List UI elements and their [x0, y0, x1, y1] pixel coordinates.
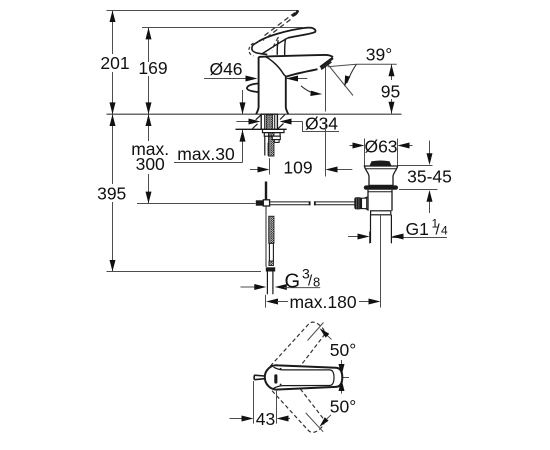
- svg-text:8: 8: [313, 275, 320, 290]
- horseshoe washer: [263, 129, 285, 132]
- faucet body outline: [256, 55, 333, 114]
- handle front stub: [254, 375, 265, 380]
- dimension 169: [148, 28, 150, 115]
- raised lever tip: [292, 10, 298, 16]
- deck hatching and mounting: [236, 128, 287, 130]
- lever raised position (dashed): [265, 13, 296, 36]
- svg-text:201: 201: [100, 53, 129, 73]
- cartridge dome curve: [266, 57, 287, 76]
- lever back knob: [252, 41, 267, 54]
- pop-up horizontal rod to drain (with break): [270, 202, 355, 205]
- svg-text:Ø34: Ø34: [305, 114, 338, 134]
- lever handle (solid, horizontal position): [259, 28, 316, 42]
- svg-text:169: 169: [138, 58, 167, 78]
- dashed handle rotated up 50deg: [270, 318, 329, 382]
- handle pivot slot: [274, 374, 277, 383]
- drain bottom rings: [371, 211, 391, 215]
- knurled knob: [354, 197, 361, 209]
- hose end nut (black): [266, 267, 275, 271]
- 39deg arc with arrow (near spout): [301, 86, 315, 94]
- svg-text:109: 109: [283, 158, 312, 178]
- drain o-ring: [364, 185, 398, 189]
- svg-text:Ø46: Ø46: [209, 59, 242, 79]
- shank threaded rod (braided texture): [266, 115, 273, 130]
- spout aerator beak: [320, 58, 333, 67]
- braided hose lower segment: [269, 216, 274, 243]
- dimension G 3/8 with thread arrows: [241, 286, 257, 288]
- pop-up rod coupler: [256, 200, 263, 205]
- dimension 95: [391, 64, 393, 80]
- handle inner contour: [274, 367, 335, 388]
- pop-up rod vertical: [265, 182, 267, 200]
- svg-text:/: /: [436, 222, 441, 239]
- svg-text:max.30: max.30: [177, 144, 235, 164]
- G3/8 tube: [267, 272, 273, 295]
- dimension D34: [236, 121, 251, 123]
- dimension D63: [364, 139, 366, 167]
- extension line top (201 ref): [107, 10, 298, 12]
- svg-text:50°: 50°: [330, 397, 356, 417]
- svg-text:300: 300: [136, 154, 165, 174]
- dimension G1 1/4: [369, 232, 371, 244]
- drain plug cap: [370, 161, 391, 166]
- dimension 43: [253, 381, 255, 424]
- svg-text:43: 43: [256, 409, 275, 429]
- dimension D46: [204, 78, 249, 80]
- lever neck: [277, 39, 285, 56]
- raised knob outline (dashed): [249, 43, 254, 56]
- threaded shank below deck: [261, 114, 277, 129]
- svg-text:4: 4: [441, 224, 448, 238]
- extension line 169 ref: [142, 27, 303, 29]
- svg-text:Ø63: Ø63: [364, 137, 397, 157]
- dimension max.300: [148, 114, 150, 203]
- braided hose upper segment: [268, 133, 274, 156]
- 50deg upper label and leader: [308, 323, 324, 341]
- svg-text:G: G: [285, 271, 301, 293]
- dimension max.30 (deck thickness): [242, 90, 244, 114]
- svg-text:G1: G1: [406, 219, 429, 239]
- dashed handle rotated down 50deg: [270, 373, 329, 437]
- hose ferrule: [269, 243, 273, 261]
- deck line: [107, 113, 402, 115]
- dimension 395: [112, 114, 114, 271]
- dimension 109: [269, 158, 271, 174]
- drain flange: [364, 166, 397, 185]
- drain body: [368, 190, 392, 211]
- pop-up rod horizontal reference line: [137, 203, 256, 205]
- left hook on body: [247, 83, 260, 92]
- svg-text:95: 95: [381, 81, 400, 101]
- svg-text:35-45: 35-45: [407, 167, 452, 187]
- drain side port to lever rod: [362, 197, 368, 210]
- drain tailpipe: [371, 215, 392, 243]
- mounting nut: [264, 133, 280, 137]
- 39deg arc with arrow (near label): [347, 64, 356, 83]
- supply tube white: [265, 136, 268, 155]
- svg-text:50°: 50°: [330, 340, 356, 360]
- lever under-curve: [261, 38, 288, 54]
- extension line bottom of 395: [107, 271, 262, 273]
- dimension max.180: [265, 295, 267, 308]
- handle dots: [280, 368, 282, 370]
- drain centerline: [380, 215, 382, 308]
- 39deg slanted reference line from spout tip: [328, 64, 354, 96]
- svg-text:395: 395: [97, 184, 126, 204]
- solid handle top view: [265, 365, 343, 389]
- svg-text:max.180: max.180: [289, 292, 356, 312]
- axis line through handle end: [316, 377, 349, 379]
- 50deg angle vertex arrows: [341, 360, 343, 394]
- dimension 35-45: [398, 165, 433, 167]
- dimension 201: [112, 11, 114, 115]
- svg-text:39°: 39°: [366, 45, 392, 65]
